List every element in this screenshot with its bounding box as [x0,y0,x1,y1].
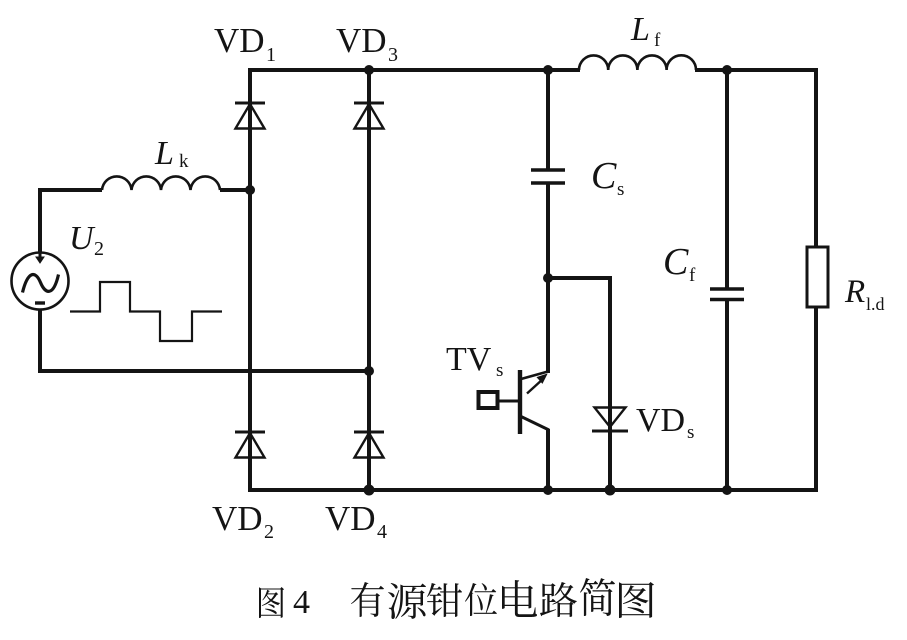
svg-text:s: s [496,360,503,381]
svg-text:C: C [591,155,617,197]
caption char 源 [388,583,426,619]
wire right side vertical below R_Ld [814,306,818,492]
junction node Cf top [722,65,732,75]
junction node clamp [543,273,553,283]
svg-text:R: R [844,274,865,310]
resistor RLd [807,247,828,307]
junction node emitter bottom [543,485,553,495]
wire source bottom rail to bridge [38,369,369,373]
junction node VD4 bottom [364,485,375,496]
wire top rail from VD1 top to right corner [248,68,580,72]
caption char 钳 [427,583,462,617]
junction node Lk-bridge [245,185,255,195]
svg-text:VD: VD [336,21,387,60]
diode VDs [592,408,628,432]
svg-text:VD: VD [212,499,263,538]
svg-text:2: 2 [94,238,104,260]
svg-text:s: s [687,422,694,443]
caption char 电 [502,580,537,617]
capacitor Cf [710,289,744,300]
wire Cf branch lower segment [725,298,729,492]
svg-text:f: f [654,30,661,51]
caption figure title [259,578,654,621]
wire source top vertical into U2 [38,188,42,254]
transistor TVs [479,370,550,434]
wire transistor emitter vertical to bottom rail [546,429,550,492]
svg-text:4: 4 [377,521,387,543]
svg-text:3: 3 [388,44,398,66]
wire VDs branch vertical [608,276,612,492]
svg-text:4: 4 [293,584,310,621]
svg-text:s: s [617,179,624,200]
svg-text:L: L [630,11,650,48]
junction node VDs bottom [605,485,616,496]
wire Lk to bridge junction [220,188,250,192]
wire left bridge leg VD1/VD2 vertical [248,68,252,492]
svg-text:f: f [689,265,696,286]
wire Cs branch middle segment to transistor [546,183,550,373]
svg-text:l.d: l.d [866,294,885,314]
svg-text:U: U [69,220,96,257]
wire Cf branch upper segment [725,68,729,289]
caption char 有 [351,582,384,617]
caption char 图 [259,587,284,618]
junction node Cs top [543,65,553,75]
diode VD3 [354,103,384,129]
caption char 路 [540,582,577,617]
waveform square wave of U2 [70,282,222,341]
inductor Lk [102,176,220,190]
caption char 位 [465,583,497,616]
svg-text:VD: VD [214,21,265,60]
caption char 简 [580,578,615,616]
AC source U2 [12,252,69,310]
svg-text:VD: VD [325,499,376,538]
svg-text:2: 2 [264,521,274,543]
junction node VD3 top [364,65,374,75]
wire clamp node horizontal to VDs [546,276,612,280]
wire bottom rail [248,488,818,492]
svg-text:1: 1 [266,44,276,66]
diode VD1 [235,103,265,129]
svg-text:VD: VD [636,402,685,439]
diode VD2 [235,432,265,458]
diode VD4 [354,432,384,458]
svg-text:k: k [179,151,189,172]
wire source top horizontal to Lk [38,188,102,192]
wire right side vertical above R_Ld [814,68,818,248]
junction node source-bridge [364,366,374,376]
svg-text:C: C [663,241,689,283]
capacitor Cs [531,170,565,183]
svg-text:L: L [154,135,174,172]
svg-text:TV: TV [446,341,492,378]
junction node Cf bottom [722,485,732,495]
inductor Lf [579,55,696,70]
wire Cs branch upper segment [546,68,550,170]
wire source bottom vertical [38,308,42,373]
caption char 图 [619,582,654,618]
wire right bridge leg VD3/VD4 vertical [367,68,371,492]
